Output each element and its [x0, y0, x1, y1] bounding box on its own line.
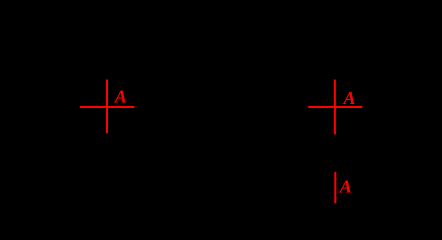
svg-text:A: A [114, 86, 127, 106]
svg-text:A: A [339, 177, 352, 197]
svg-text:A: A [343, 88, 356, 108]
